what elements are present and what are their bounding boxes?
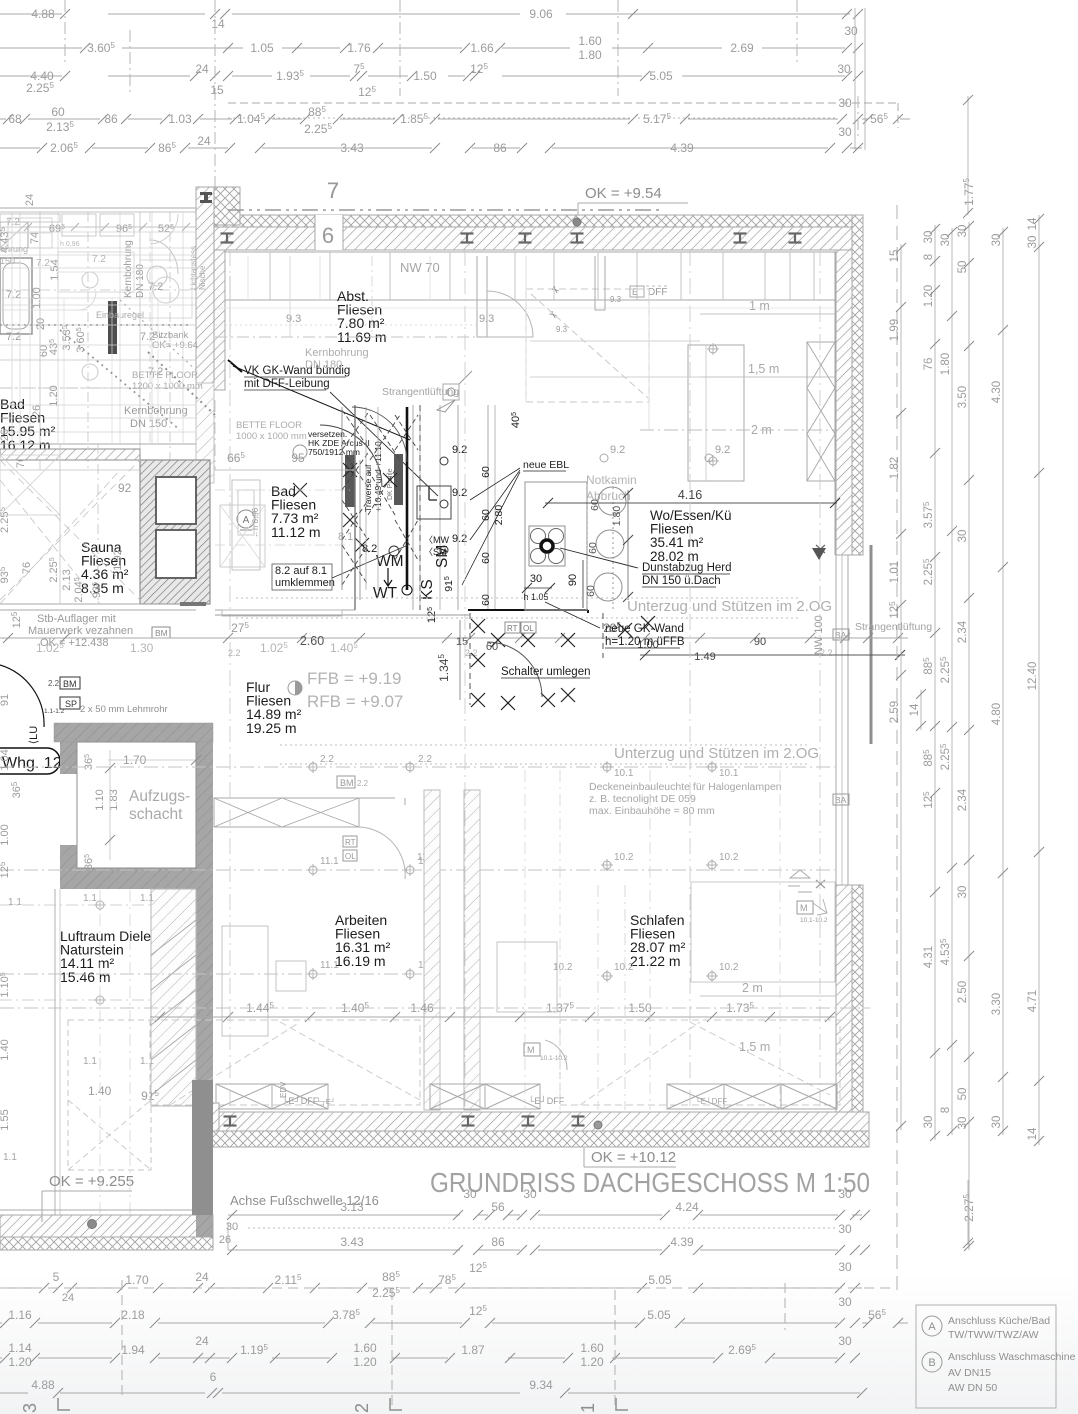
svg-text:11.12 m: 11.12 m xyxy=(271,524,321,540)
svg-text:OK = +9.54: OK = +9.54 xyxy=(585,185,662,202)
svg-text:FFB = +9.19: FFB = +9.19 xyxy=(307,669,402,688)
svg-text:8.2: 8.2 xyxy=(362,543,377,555)
svg-text:Notkamin: Notkamin xyxy=(586,473,637,487)
kitchen upper arcs xyxy=(352,407,407,462)
svg-text:9.3: 9.3 xyxy=(556,325,568,334)
svg-text:1.50: 1.50 xyxy=(413,69,437,83)
svg-text:BETTE FLOOR: BETTE FLOOR xyxy=(132,370,198,381)
svg-text:8.2 auf 8.1: 8.2 auf 8.1 xyxy=(275,565,327,577)
svg-text:2.18: 2.18 xyxy=(121,1308,145,1322)
svg-text:1.87: 1.87 xyxy=(461,1343,485,1357)
svg-text:SP: SP xyxy=(65,699,77,709)
sauna hatched block xyxy=(140,460,210,604)
svg-text:11.1: 11.1 xyxy=(320,856,339,867)
svg-text:└E┘DFF: └E┘DFF xyxy=(695,1096,727,1106)
sink square xyxy=(417,486,451,519)
svg-text:BM: BM xyxy=(63,679,77,689)
dashed balcony luftraum xyxy=(68,1020,151,1170)
desk arbeiten xyxy=(222,926,268,1036)
svg-text:Anschluss Waschmaschine: Anschluss Waschmaschine xyxy=(948,1351,1076,1363)
svg-text:15.46 m: 15.46 m xyxy=(60,969,111,985)
svg-text:OK = +10.12: OK = +10.12 xyxy=(591,1149,676,1166)
svg-text:2.2: 2.2 xyxy=(48,679,60,688)
svg-text:6: 6 xyxy=(210,1370,217,1384)
svg-text:30: 30 xyxy=(940,234,952,247)
Abst door arc xyxy=(487,291,533,337)
BM SP boxed labels xyxy=(60,677,80,689)
OL RT boxes xyxy=(343,836,357,847)
svg-text:1: 1 xyxy=(578,1403,598,1413)
svg-text:BM: BM xyxy=(340,778,354,788)
svg-text:68: 68 xyxy=(8,112,22,126)
svg-text:1.92: 1.92 xyxy=(112,549,124,570)
svg-text:1.94: 1.94 xyxy=(121,1343,145,1357)
neighbour apartment dense detail xyxy=(20,226,196,228)
svg-text:24: 24 xyxy=(197,134,211,148)
svg-text:Unterzug und Stützen im 2.OG: Unterzug und Stützen im 2.OG xyxy=(614,745,819,762)
svg-text:1000 x 1000 mm: 1000 x 1000 mm xyxy=(236,431,307,442)
dark grey left wall lower segment xyxy=(192,1080,213,1215)
svg-text:umklemmen: umklemmen xyxy=(275,577,335,589)
svg-text:OL: OL xyxy=(345,852,356,861)
svg-text:3.13: 3.13 xyxy=(340,1200,364,1214)
svg-text:10.1: 10.1 xyxy=(614,768,634,779)
svg-text:4.39: 4.39 xyxy=(670,141,694,155)
svg-text:76: 76 xyxy=(21,562,33,574)
svg-text:2 m: 2 m xyxy=(742,981,763,995)
window sill boxes above bottom wall xyxy=(216,1084,272,1109)
svg-text:8.1: 8.1 xyxy=(338,531,353,543)
svg-text:RT: RT xyxy=(507,624,518,633)
svg-text:1 m: 1 m xyxy=(749,299,770,313)
M box top right xyxy=(797,901,813,914)
X marks kitchen xyxy=(343,463,357,477)
svg-text:Unterzug und Stützen im 2.OG: Unterzug und Stützen im 2.OG xyxy=(627,598,832,615)
vertical dashed axes bottom xyxy=(121,1280,123,1395)
svg-text:9.3: 9.3 xyxy=(479,313,494,325)
svg-text:BETTE FLOOR: BETTE FLOOR xyxy=(236,420,302,431)
abst room texture xyxy=(215,324,477,326)
boundary dashdot line y210 xyxy=(228,209,660,211)
svg-text:Nische: Nische xyxy=(198,265,207,290)
svg-text:2.59: 2.59 xyxy=(889,701,901,723)
svg-text:1.1-1.2: 1.1-1.2 xyxy=(44,708,65,715)
svg-text:1.60: 1.60 xyxy=(578,34,602,48)
neighbour room grid lines xyxy=(0,226,196,228)
svg-text:2.60: 2.60 xyxy=(300,634,324,648)
svg-text:30: 30 xyxy=(923,231,935,244)
svg-text:2.80: 2.80 xyxy=(493,505,505,526)
kitchen left wall line strengthen xyxy=(354,405,356,610)
right wall window band xyxy=(835,555,837,885)
small black arrows bad xyxy=(384,568,392,586)
svg-text:4.39: 4.39 xyxy=(670,1235,694,1249)
svg-text:B: B xyxy=(928,1357,935,1369)
svg-text:10.1-10.2: 10.1-10.2 xyxy=(800,917,828,924)
svg-text:1.66: 1.66 xyxy=(470,41,494,55)
WM/WT dim lines xyxy=(359,460,361,600)
svg-text:DN 150: DN 150 xyxy=(130,418,167,430)
bad mid room: lines xyxy=(215,469,355,471)
svg-text:30: 30 xyxy=(957,530,969,543)
svg-text:DN 150 ü.Dach: DN 150 ü.Dach xyxy=(642,575,721,587)
toilet arc neighbour xyxy=(150,240,178,274)
svg-text:BA: BA xyxy=(835,795,847,805)
neighbour fixtures extra xyxy=(62,214,96,236)
svg-text:60: 60 xyxy=(589,499,601,511)
svg-text:1200 x 1000 mm: 1200 x 1000 mm xyxy=(132,381,203,392)
svg-text:└E┘DFF: └E┘DFF xyxy=(528,1095,565,1106)
closet dividers along top wall xyxy=(269,252,271,300)
svg-text:1.01: 1.01 xyxy=(889,561,901,583)
svg-text:30: 30 xyxy=(838,1295,852,1309)
svg-text:24: 24 xyxy=(62,1292,74,1304)
svg-text:1.05: 1.05 xyxy=(250,41,274,55)
svg-text:26: 26 xyxy=(219,1234,231,1246)
svg-text:h=1.20 m üFFB: h=1.20 m üFFB xyxy=(605,636,685,648)
bottom dimension rows xyxy=(228,1214,460,1216)
left lower exterior wall xyxy=(0,1215,213,1237)
faint horizontal under closet xyxy=(215,307,835,309)
neighbour apartment extra texture xyxy=(0,231,196,233)
dotted pipe line xyxy=(148,352,215,415)
svg-text:Mauerwerk vezahnen: Mauerwerk vezahnen xyxy=(28,625,133,637)
svg-text:Aufzugs-: Aufzugs- xyxy=(129,788,190,805)
svg-text:60: 60 xyxy=(480,509,492,521)
svg-text:30: 30 xyxy=(838,1187,852,1201)
svg-text:7.2: 7.2 xyxy=(6,331,21,343)
svg-text:8: 8 xyxy=(923,254,935,260)
wall jog near abst door xyxy=(594,256,596,310)
svg-text:14: 14 xyxy=(909,703,921,716)
svg-text:30: 30 xyxy=(844,24,858,38)
svg-text:9.2: 9.2 xyxy=(610,444,625,456)
svg-text:10.2: 10.2 xyxy=(553,962,573,973)
svg-text:└┬E┘: └┬E┘ xyxy=(316,1097,336,1106)
party wall vertical (hatched) xyxy=(196,187,214,383)
right exterior wall lower (hatched) xyxy=(852,885,863,1147)
svg-text:OK= +9.64: OK= +9.64 xyxy=(152,340,198,351)
svg-text:1.1: 1.1 xyxy=(83,1056,97,1067)
dashed partition lines xyxy=(419,405,421,610)
svg-text:60: 60 xyxy=(480,594,492,606)
svg-text:9.2: 9.2 xyxy=(715,444,730,456)
svg-text:1.10: 1.10 xyxy=(94,789,106,810)
thick black new wall line xyxy=(406,407,409,590)
bottom-left extra wall edge xyxy=(196,1215,213,1237)
svg-text:56: 56 xyxy=(491,1200,505,1214)
svg-text:BM: BM xyxy=(155,628,168,638)
schlafen big light rect xyxy=(691,882,835,982)
svg-text:1.03: 1.03 xyxy=(168,112,192,126)
svg-text:Schalter umlegen: Schalter umlegen xyxy=(501,666,591,678)
sauna room lines xyxy=(0,469,140,471)
svg-text:9.34: 9.34 xyxy=(529,1378,553,1392)
svg-text:1.54: 1.54 xyxy=(49,259,61,280)
staircase hatch xyxy=(151,889,196,1106)
BM boxed label xyxy=(152,627,170,638)
svg-text:1.60: 1.60 xyxy=(580,1341,604,1355)
svg-text:1.1: 1.1 xyxy=(8,897,22,908)
schlafen nodes xyxy=(603,763,611,771)
svg-text:10.1: 10.1 xyxy=(719,768,739,779)
black diagonal leader top xyxy=(233,366,410,440)
window boxes along left edge of plan xyxy=(0,214,60,222)
svg-text:4.31: 4.31 xyxy=(923,946,935,968)
svg-text:21.22 m: 21.22 m xyxy=(630,953,681,969)
svg-text:Kernbohrung: Kernbohrung xyxy=(305,347,369,359)
svg-text:1.20: 1.20 xyxy=(8,1355,32,1369)
svg-text:schacht: schacht xyxy=(129,806,183,823)
svg-text:WM: WM xyxy=(376,553,404,570)
svg-text:10.2: 10.2 xyxy=(614,962,634,973)
svg-text:〈MW: 〈MW xyxy=(424,535,449,545)
svg-text:3.30: 3.30 xyxy=(991,993,1003,1015)
svg-text:NW 100: NW 100 xyxy=(813,615,825,655)
svg-text:BA: BA xyxy=(835,630,847,640)
steel columns in top wall xyxy=(221,232,234,234)
svg-text:EDV: EDV xyxy=(279,1081,288,1098)
bad mid dashdots xyxy=(215,489,350,491)
svg-text:1.20: 1.20 xyxy=(353,1355,377,1369)
svg-text:8: 8 xyxy=(940,1107,952,1113)
E DFF boxed xyxy=(630,286,644,297)
svg-text:30: 30 xyxy=(991,1116,1003,1129)
small grey rect row above flur (heizkoerper) xyxy=(222,610,342,616)
svg-text:1.70: 1.70 xyxy=(125,1273,149,1287)
svg-text:TW/TWW/TWZ/AW: TW/TWW/TWZ/AW xyxy=(948,1329,1039,1341)
svg-text:60: 60 xyxy=(585,585,597,597)
svg-text:4.71: 4.71 xyxy=(1027,990,1039,1012)
svg-text:1.1: 1.1 xyxy=(140,893,154,904)
svg-text:2.50: 2.50 xyxy=(957,981,969,1003)
svg-text:150: 150 xyxy=(0,256,15,266)
svg-text:9.3: 9.3 xyxy=(286,313,301,325)
svg-text:〈SM: 〈SM xyxy=(424,547,447,557)
svg-text:z. B. tecnolight DE 059: z. B. tecnolight DE 059 xyxy=(589,793,696,805)
svg-text:A: A xyxy=(243,515,250,526)
svg-text:h 0,96: h 0,96 xyxy=(60,241,80,248)
svg-text:2.2: 2.2 xyxy=(418,754,432,765)
neighbour apartment outline xyxy=(0,207,196,209)
svg-text:5.05: 5.05 xyxy=(648,1273,672,1287)
svg-text:76: 76 xyxy=(923,358,935,371)
svg-text:OK = +9.255: OK = +9.255 xyxy=(49,1173,134,1190)
left wall pieces below aufzug xyxy=(196,889,213,1215)
dash-dot room axis xyxy=(215,336,477,338)
svg-text:60: 60 xyxy=(51,105,65,119)
svg-text:30: 30 xyxy=(1027,236,1039,249)
svg-text:1.1: 1.1 xyxy=(83,893,97,904)
svg-text:1.76: 1.76 xyxy=(347,41,371,55)
axis grid lines top xyxy=(64,0,66,62)
svg-text:2.34: 2.34 xyxy=(957,788,969,811)
interior wall left of Abst (hatched) xyxy=(208,250,225,390)
svg-text:3.50: 3.50 xyxy=(957,386,969,408)
kitchen arc xyxy=(320,425,382,487)
BM box + symbols xyxy=(337,776,355,788)
traverse dark rectangles xyxy=(345,455,355,507)
svg-text:9.06: 9.06 xyxy=(529,7,553,21)
svg-text:24: 24 xyxy=(195,1334,209,1348)
svg-text:7: 7 xyxy=(327,178,339,203)
svg-text:1.20: 1.20 xyxy=(923,285,935,307)
svg-text:86: 86 xyxy=(491,1235,505,1249)
wo/essen roof lines xyxy=(530,340,700,342)
luftraum grid xyxy=(0,904,151,906)
svg-text:2.13: 2.13 xyxy=(61,569,73,590)
kitchen wall area xyxy=(354,405,356,610)
svg-text:15: 15 xyxy=(456,636,468,648)
svg-text:1.49: 1.49 xyxy=(694,651,715,663)
svg-text:10.2: 10.2 xyxy=(719,962,739,973)
svg-text:4.24: 4.24 xyxy=(675,1200,699,1214)
svg-text:7.2: 7.2 xyxy=(92,254,106,265)
door arc bottom-left black xyxy=(0,665,44,727)
svg-text:DN 180: DN 180 xyxy=(135,264,146,298)
svg-text:50: 50 xyxy=(957,1088,969,1101)
diagonal roof lines sauna xyxy=(0,470,120,604)
svg-text:4.88: 4.88 xyxy=(31,1378,55,1392)
svg-text:KS: KS xyxy=(419,579,436,600)
svg-text:AV DN15: AV DN15 xyxy=(948,1367,991,1379)
wardrobe right wo/essen xyxy=(807,342,835,481)
svg-text:24: 24 xyxy=(24,194,36,206)
svg-text:86: 86 xyxy=(493,141,507,155)
grid axis verticals mid xyxy=(214,400,216,470)
X marks flur xyxy=(471,619,485,633)
svg-text:7.2: 7.2 xyxy=(36,258,50,269)
svg-text:4.30: 4.30 xyxy=(991,381,1003,403)
dotted floor heating row xyxy=(180,602,206,606)
svg-text:neue EBL: neue EBL xyxy=(523,459,569,471)
svg-text:OL: OL xyxy=(523,624,534,633)
dashed roof boxes bottom rooms xyxy=(150,1020,420,1105)
dash-dot horizontal y1008 xyxy=(0,1007,870,1009)
triangle vent right wall xyxy=(812,548,826,560)
H column symbol xyxy=(200,192,212,203)
svg-text:90: 90 xyxy=(754,636,766,648)
svg-text:1.04: 1.04 xyxy=(0,749,11,770)
svg-text:RFB = +9.07: RFB = +9.07 xyxy=(307,692,403,711)
unterzug band 2 xyxy=(280,744,810,746)
svg-text:DFF: DFF xyxy=(648,287,667,298)
svg-text:Kernbohrung: Kernbohrung xyxy=(123,240,134,298)
svg-text:h 1.05: h 1.05 xyxy=(523,592,548,602)
svg-text:1.60: 1.60 xyxy=(353,1341,377,1355)
svg-text:14: 14 xyxy=(211,17,225,31)
schlafen/arbeiten axis verticals xyxy=(524,770,526,1110)
svg-text:30: 30 xyxy=(523,1187,537,1201)
svg-text:30: 30 xyxy=(957,1117,969,1130)
three circles (Notkamin) xyxy=(598,487,626,515)
svg-text:1.1: 1.1 xyxy=(3,1152,17,1163)
svg-text:24: 24 xyxy=(195,62,209,76)
svg-text:2.34: 2.34 xyxy=(957,620,969,643)
svg-text:5.05: 5.05 xyxy=(647,1308,671,1322)
svg-text:1.80: 1.80 xyxy=(578,48,602,62)
svg-text:30: 30 xyxy=(991,234,1003,247)
bottom exterior wall (hatched) xyxy=(209,1112,869,1131)
svg-text:Kernbohrung: Kernbohrung xyxy=(124,405,188,417)
aufzug interior xyxy=(77,742,196,868)
bed schlafen xyxy=(497,942,557,1012)
svg-text:2: 2 xyxy=(352,1403,372,1413)
svg-text:14: 14 xyxy=(1027,1127,1039,1140)
svg-text:10.2: 10.2 xyxy=(614,852,634,863)
axis numeral 6 xyxy=(316,216,342,249)
luftraum room boundary xyxy=(54,889,56,1215)
dashed roof rect wo/essen xyxy=(526,289,649,402)
door arc flur xyxy=(487,642,542,697)
Abst room right wall xyxy=(476,256,478,337)
M box schlafen xyxy=(524,1043,540,1056)
svg-text:NW 70: NW 70 xyxy=(400,260,440,275)
svg-text:1,5 m: 1,5 m xyxy=(739,1040,770,1054)
svg-text:1.30: 1.30 xyxy=(130,641,154,655)
aufzug walls solid grey xyxy=(54,723,213,742)
svg-text:30: 30 xyxy=(838,1334,852,1348)
right vertical dimension chains xyxy=(896,205,898,1290)
svg-text:3.43: 3.43 xyxy=(340,141,364,155)
svg-text:⟨LU: ⟨LU xyxy=(28,726,40,744)
wall band under Bad xyxy=(0,449,140,460)
schlafen axis verticals xyxy=(597,885,599,1110)
svg-text:7.2: 7.2 xyxy=(6,289,21,301)
corner piece bottom-left of main xyxy=(200,1103,219,1131)
svg-text:30: 30 xyxy=(838,1222,852,1236)
svg-text:1.99: 1.99 xyxy=(889,319,901,341)
svg-text:10.2: 10.2 xyxy=(719,852,739,863)
svg-text:Strangentlüftung: Strangentlüftung xyxy=(855,621,932,633)
window X right wall mid xyxy=(816,545,825,553)
bad mid shower square xyxy=(220,505,265,567)
svg-text:1.1: 1.1 xyxy=(140,1056,154,1067)
RT OL boxes flur xyxy=(505,622,520,633)
svg-text:RT: RT xyxy=(345,838,356,847)
top exterior wall (hatched) xyxy=(212,215,863,227)
svg-text:1.82: 1.82 xyxy=(889,457,901,479)
kitchen island tall cabinet xyxy=(688,345,744,481)
svg-text:max. Einbauhöhe = 80 mm: max. Einbauhöhe = 80 mm xyxy=(589,805,715,817)
door arbeiten arc xyxy=(359,827,405,879)
svg-text:30: 30 xyxy=(957,225,969,238)
svg-text:3: 3 xyxy=(20,1403,40,1413)
top dimension rows xyxy=(0,7,910,155)
svg-text:1.20: 1.20 xyxy=(580,1355,604,1369)
unterzug band 1 xyxy=(236,597,800,599)
svg-text:14: 14 xyxy=(1027,217,1039,230)
svg-text:16.19 m: 16.19 m xyxy=(335,953,386,969)
svg-text:60: 60 xyxy=(587,542,599,554)
pump symbols above M xyxy=(788,870,812,892)
svg-text:1.80: 1.80 xyxy=(940,353,952,375)
svg-text:7.2: 7.2 xyxy=(6,217,20,228)
svg-text:Deckeneinbauleuchte für Haloge: Deckeneinbauleuchte für Halogenlampen xyxy=(589,781,782,793)
neighbour bath fixtures xyxy=(0,258,32,334)
kitchen cabinet dashed X texture xyxy=(342,410,370,450)
svg-text:90: 90 xyxy=(567,574,579,586)
main grid axis verticals xyxy=(229,250,231,1110)
wo/essen upper-left faint roof verticals xyxy=(525,256,527,402)
svg-text:2.69: 2.69 xyxy=(730,41,754,55)
svg-text:3.43: 3.43 xyxy=(340,1235,364,1249)
svg-text:5.05: 5.05 xyxy=(649,69,673,83)
svg-text:15: 15 xyxy=(210,83,224,97)
svg-text:1,5 m: 1,5 m xyxy=(748,362,779,376)
legend box xyxy=(916,1305,1056,1408)
dotted line island xyxy=(586,482,588,610)
